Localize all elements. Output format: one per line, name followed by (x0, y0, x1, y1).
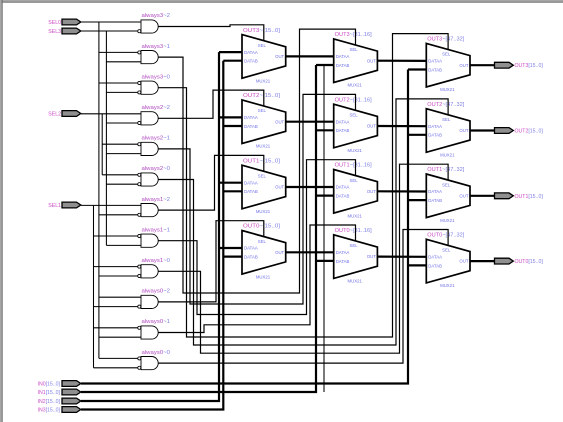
wire select net always2~2 to mux col1 row2 (158, 90, 264, 118)
svg-text:DATAB: DATAB (428, 133, 442, 138)
svg-text:always0~0: always0~0 (142, 350, 171, 356)
wire stub to always0~0 input A (99, 357, 138, 359)
mux OUT0~[47..32] (MUX21) (426, 233, 470, 289)
svg-text:SEL: SEL (442, 52, 451, 57)
svg-text:OUT1~[31..16]: OUT1~[31..16] (335, 163, 373, 169)
svg-text:DATAB: DATAB (336, 63, 350, 68)
svg-text:OUT: OUT (275, 119, 284, 124)
wire bus col2 row3 OUT to col3 DATAA (377, 190, 426, 192)
svg-text:SEL: SEL (442, 117, 451, 122)
wire SEL2 net: port to gate always2~2 input A (81, 113, 141, 115)
wire SEL2 vertical rail (101, 114, 103, 175)
svg-text:OUT: OUT (275, 54, 284, 59)
wire select net always1~0 to mux col3 row3 (158, 164, 448, 353)
wire select net always1~2 to mux col1 row3 (158, 155, 264, 210)
AND gate always3~0 (138, 74, 171, 94)
wire stub to always1~1 input B (106, 244, 141, 246)
wire bus IN0[15..0] to col3 DATAB rail (81, 70, 408, 384)
wire bus IN3 stub to col1 row3 DATAB (223, 190, 242, 192)
wire bus col2 row2 OUT to col3 DATAA (377, 125, 426, 127)
svg-text:OUT2[15..0]: OUT2[15..0] (515, 129, 544, 135)
wire bus IN0 stub to col3 row1 DATAB (408, 68, 426, 70)
svg-text:always3~2: always3~2 (142, 13, 171, 19)
wire stub to always3~0 input B (106, 91, 137, 93)
svg-text:DATAA: DATAA (428, 189, 442, 194)
svg-text:DATAB: DATAB (244, 189, 258, 194)
svg-text:SEL3: SEL3 (48, 29, 61, 35)
wire bus IN3[15..0] to col1 DATAB rail (81, 61, 223, 410)
output port OUT2[15..0] (495, 128, 544, 135)
output port OUT3[15..0] (495, 62, 544, 69)
output port OUT1[15..0] (495, 193, 544, 200)
wire SEL3 net: port to gate always3~2 input B (81, 30, 138, 32)
input port SEL0 (48, 19, 81, 26)
mux OUT0~[15..0] (MUX21) (242, 224, 286, 280)
wire bus col1 row3 OUT to col2 DATAA (286, 186, 334, 188)
svg-text:MUX21: MUX21 (440, 153, 455, 158)
wire SEL1 vertical rail (93, 205, 95, 367)
wire select net always3~0 to mux col3 row1 (158, 34, 448, 337)
svg-text:MUX21: MUX21 (348, 279, 363, 284)
wire stub to always0~0 input B (94, 367, 138, 369)
wire bus IN1[15..0] to col2 DATAB rail (81, 65, 316, 392)
AND gate always2~2 (138, 105, 171, 125)
svg-text:SEL0: SEL0 (48, 20, 61, 26)
svg-text:DATAA: DATAA (428, 255, 442, 260)
svg-text:OUT3~[47..32]: OUT3~[47..32] (427, 37, 465, 43)
wire bus col3 row4 OUT to output port (470, 260, 495, 262)
AND gate always3~2 (138, 13, 171, 33)
svg-text:SEL: SEL (258, 239, 267, 244)
wire select net always1~1 to mux col2 row3 (158, 160, 355, 315)
svg-text:SEL: SEL (442, 182, 451, 187)
svg-text:DATAA: DATAA (428, 59, 442, 64)
svg-text:IN0[15..0]: IN0[15..0] (38, 382, 61, 388)
svg-text:OUT3~[15..0]: OUT3~[15..0] (243, 28, 281, 34)
svg-text:OUT1[15..0]: OUT1[15..0] (515, 194, 544, 200)
wire stub to always2~1 input B (106, 153, 141, 155)
svg-text:always2~1: always2~1 (142, 136, 171, 142)
wire bus col2 row1 OUT to col3 DATAA (377, 60, 426, 62)
AND gate always2~0 (138, 166, 171, 186)
svg-text:OUT: OUT (367, 189, 376, 194)
mux OUT3~[47..32] (MUX21) (426, 37, 470, 93)
AND gate always3~1 (138, 44, 171, 64)
wire stub to always3~1 input B (106, 61, 141, 63)
svg-text:SEL: SEL (258, 174, 267, 179)
svg-text:DATAB: DATAB (336, 259, 350, 264)
svg-text:MUX21: MUX21 (440, 218, 455, 223)
svg-text:IN1[15..0]: IN1[15..0] (38, 390, 61, 396)
wire bus IN1 stub to col2 row1 DATAB (316, 64, 334, 66)
output port OUT0[15..0] (495, 258, 544, 265)
mux OUT3~[31..16] (MUX21) (334, 32, 378, 88)
svg-text:OUT: OUT (367, 58, 376, 63)
svg-text:always3~1: always3~1 (142, 44, 171, 50)
wire select net always3~1 to mux col2 row1 (158, 29, 355, 293)
svg-text:OUT: OUT (459, 128, 468, 133)
wire select net always0~1 to mux col2 row4 (158, 225, 355, 333)
wire bus IN1 stub to col2 row2 DATAB (316, 129, 334, 131)
svg-text:MUX21: MUX21 (348, 148, 363, 153)
mux OUT2~[47..32] (MUX21) (426, 102, 470, 158)
wire bus col3 row3 OUT to output port (470, 195, 495, 197)
wire stub to always1~2 input B (99, 214, 138, 216)
wire stub to always2~2 input B (106, 122, 137, 124)
svg-text:always2~2: always2~2 (142, 105, 171, 111)
svg-text:OUT: OUT (459, 259, 468, 264)
wire SEL0 vertical rail (98, 22, 100, 358)
svg-text:SEL: SEL (442, 248, 451, 253)
svg-text:OUT: OUT (459, 63, 468, 68)
wire select net always3~2 to mux col1 row1 (158, 25, 264, 41)
wire bus col3 row1 OUT to output port (470, 64, 495, 66)
wire stub to always2~0 input B (106, 183, 137, 185)
svg-text:SEL: SEL (350, 113, 359, 118)
svg-text:DATAB: DATAB (244, 255, 258, 260)
svg-text:DATAA: DATAA (336, 119, 350, 124)
svg-text:OUT2~[31..16]: OUT2~[31..16] (335, 97, 373, 103)
svg-text:OUT0~[47..32]: OUT0~[47..32] (427, 233, 465, 239)
svg-text:always1~2: always1~2 (142, 197, 171, 203)
wire stub to always3~1 input A (99, 51, 138, 53)
wire select net always0~2 to mux col1 row4 (158, 221, 264, 302)
mux OUT2~[31..16] (MUX21) (334, 97, 378, 153)
svg-text:DATAB: DATAB (428, 198, 442, 203)
svg-text:SEL: SEL (258, 43, 267, 48)
svg-text:MUX21: MUX21 (348, 213, 363, 218)
wire stub to always0~1 input A (94, 327, 138, 329)
svg-text:DATAA: DATAA (244, 246, 258, 251)
wire bus IN3 stub to col1 row1 DATAB (223, 60, 242, 62)
svg-text:SEL2: SEL2 (48, 112, 61, 118)
wire bus col2 row4 OUT to col3 DATAA (377, 256, 426, 258)
wire bus col1 row1 OUT to col2 DATAA (286, 55, 334, 57)
AND gate always1~0 (138, 258, 171, 278)
svg-text:OUT: OUT (459, 193, 468, 198)
wire stub to always2~1 input A (102, 143, 138, 145)
svg-text:always0~1: always0~1 (142, 319, 171, 325)
wire stub to always1~0 input B (99, 275, 138, 277)
svg-text:OUT: OUT (275, 250, 284, 255)
wire stub to always0~2 input B (94, 306, 138, 308)
wire bus IN0 stub to col3 row3 DATAB (408, 199, 426, 201)
mux OUT2~[15..0] (MUX21) (242, 93, 286, 149)
AND gate always1~2 (138, 197, 171, 217)
input port IN3[15..0] (38, 407, 81, 414)
svg-text:OUT1~[47..32]: OUT1~[47..32] (427, 167, 465, 173)
svg-text:always2~0: always2~0 (142, 166, 171, 172)
wire bus IN2 stub to col1 row1 DATAA (219, 51, 242, 53)
AND gate always0~0 (138, 350, 171, 370)
svg-text:MUX21: MUX21 (440, 87, 455, 92)
svg-text:SEL: SEL (258, 108, 267, 113)
input port IN1[15..0] (38, 389, 81, 396)
svg-text:DATAA: DATAA (428, 124, 442, 129)
svg-text:DATAA: DATAA (336, 185, 350, 190)
svg-text:SEL1: SEL1 (48, 203, 61, 209)
svg-text:DATAB: DATAB (336, 128, 350, 133)
svg-text:DATAB: DATAB (428, 67, 442, 72)
wire bus col1 row4 OUT to col2 DATAA (286, 251, 334, 253)
svg-text:DATAB: DATAB (244, 59, 258, 64)
svg-text:DATAA: DATAA (336, 54, 350, 59)
wire stub to always0~1 input B (99, 336, 141, 338)
svg-text:OUT: OUT (367, 254, 376, 259)
svg-text:MUX21: MUX21 (256, 274, 271, 279)
wire bus IN1 stub to col2 row3 DATAB (316, 195, 334, 197)
svg-text:DATAA: DATAA (336, 250, 350, 255)
svg-text:MUX21: MUX21 (256, 209, 271, 214)
svg-text:always0~2: always0~2 (142, 289, 171, 295)
wire bus IN0 stub to col3 row2 DATAB (408, 134, 426, 136)
wire bus IN3 stub to col1 row2 DATAB (223, 125, 242, 127)
wire bus IN2 stub to col1 row4 DATAA (219, 247, 242, 249)
wire select net always2~1 to mux col2 row2 (158, 94, 355, 304)
wire SEL0 net: port to gate always3~2 input A (81, 21, 141, 23)
svg-text:IN2[15..0]: IN2[15..0] (38, 399, 61, 405)
AND gate always1~1 (138, 227, 171, 247)
wire bus IN0 stub to col3 row4 DATAB (408, 264, 426, 266)
wire stub to always1~1 input A (94, 235, 138, 237)
input port SEL1 (48, 202, 81, 209)
input port IN0[15..0] (38, 381, 81, 388)
wire SEL1 net: port to gate always1~2 input A (81, 204, 141, 206)
wire select net always2~0 to mux col3 row2 (158, 99, 448, 345)
wire bus IN2[15..0] to col1 DATAA rail (81, 52, 219, 401)
wire stub to always0~2 input A (99, 296, 141, 298)
svg-text:DATAB: DATAB (336, 194, 350, 199)
svg-text:always1~0: always1~0 (142, 258, 171, 264)
wire stub to always1~0 input A (94, 266, 138, 268)
wire bus IN3 stub to col1 row4 DATAB (223, 256, 242, 258)
svg-text:MUX21: MUX21 (256, 78, 271, 83)
wire bus col1 row2 OUT to col2 DATAA (286, 121, 334, 123)
svg-text:OUT2~[47..32]: OUT2~[47..32] (427, 102, 465, 108)
svg-text:OUT3[15..0]: OUT3[15..0] (515, 63, 544, 69)
mux OUT1~[47..32] (MUX21) (426, 167, 470, 223)
svg-text:OUT: OUT (367, 124, 376, 129)
wire bus IN2 stub to col1 row3 DATAA (219, 182, 242, 184)
svg-text:always3~0: always3~0 (142, 74, 171, 80)
svg-text:OUT0~[15..0]: OUT0~[15..0] (243, 224, 281, 230)
svg-text:DATAA: DATAA (244, 180, 258, 185)
wire stub to always3~0 input A (99, 82, 138, 84)
AND gate always2~1 (138, 136, 171, 156)
input port IN2[15..0] (38, 398, 81, 405)
wire stub to always2~0 input A (102, 174, 138, 176)
wire select net always0~0 to mux col3 row4 (158, 230, 448, 364)
svg-text:DATAA: DATAA (244, 50, 258, 55)
wire bus IN1 stub to col2 row4 DATAB (316, 260, 334, 262)
wire IN1 bus branch vertical (323, 65, 325, 392)
AND gate always0~2 (138, 289, 171, 309)
wire bus IN2 stub to col1 row2 DATAA (219, 116, 242, 118)
mux OUT3~[15..0] (MUX21) (242, 28, 286, 84)
mux OUT1~[15..0] (MUX21) (242, 158, 286, 214)
mux OUT1~[31..16] (MUX21) (334, 163, 378, 219)
svg-text:SEL: SEL (350, 243, 359, 248)
svg-text:DATAA: DATAA (244, 115, 258, 120)
svg-text:IN3[15..0]: IN3[15..0] (38, 408, 61, 414)
wire SEL3 vertical rail (105, 31, 107, 245)
svg-text:OUT0[15..0]: OUT0[15..0] (515, 259, 544, 265)
input port SEL2 (48, 111, 81, 118)
AND gate always0~1 (138, 319, 171, 339)
svg-text:OUT: OUT (275, 185, 284, 190)
mux OUT0~[31..16] (MUX21) (334, 228, 378, 284)
svg-text:MUX21: MUX21 (256, 144, 271, 149)
svg-text:DATAB: DATAB (428, 263, 442, 268)
svg-text:OUT2~[15..0]: OUT2~[15..0] (243, 93, 281, 99)
svg-text:MUX21: MUX21 (348, 83, 363, 88)
svg-text:OUT0~[31..16]: OUT0~[31..16] (335, 228, 373, 234)
svg-text:OUT1~[15..0]: OUT1~[15..0] (243, 158, 281, 164)
svg-text:OUT3~[31..16]: OUT3~[31..16] (335, 32, 373, 38)
wire bus col3 row2 OUT to output port (470, 129, 495, 131)
svg-text:DATAB: DATAB (244, 124, 258, 129)
input port SEL3 (48, 28, 81, 35)
svg-text:always1~1: always1~1 (142, 227, 171, 233)
svg-text:SEL: SEL (350, 178, 359, 183)
svg-text:SEL: SEL (350, 47, 359, 52)
svg-text:MUX21: MUX21 (440, 283, 455, 288)
